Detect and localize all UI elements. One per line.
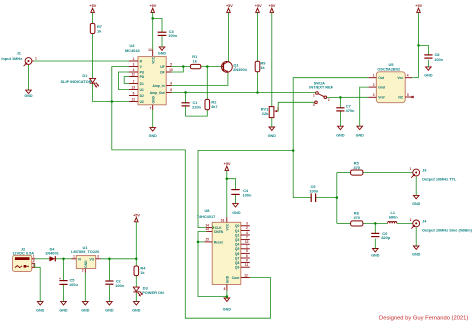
svg-text:GND: GND [84,260,88,268]
wire 4017 CKEN/Reset to ground [198,231,227,296]
svg-text:Cout: Cout [232,276,240,280]
wire C4 to ground [235,195,237,204]
svg-text:5: 5 [407,93,409,97]
capacitor C7 [336,104,355,114]
svg-text:1: 1 [410,218,412,222]
ground (J2) [36,302,45,313]
svg-text:Amp_Out: Amp_Out [150,91,166,95]
svg-text:12VDC 0.5A: 12VDC 0.5A [12,251,34,256]
svg-text:+5V: +5V [415,4,422,8]
wire R5 to J3 [363,172,413,174]
svg-text:22k: 22k [262,111,269,116]
svg-text:Q0: Q0 [235,224,240,228]
svg-text:4: 4 [407,74,409,78]
svg-text:220n: 220n [192,105,201,110]
svg-text:470: 470 [353,165,360,170]
svg-text:GND: GND [424,73,433,77]
node CKEN-Reset junction [197,241,200,244]
svg-text:NC: NC [398,95,403,99]
wire U5 Vcc up [412,77,419,79]
svg-text:Amp_In: Amp_In [153,84,165,88]
svg-text:Out: Out [378,76,385,80]
wire C3 tap [153,18,162,32]
wire C2 top [108,259,110,281]
ground (C4) [232,204,241,215]
power +5V (R7 column) [89,4,96,23]
wire U4 PD to D1 loop [124,77,129,84]
ground (C7) [336,126,345,137]
ground (C6) [371,249,380,258]
svg-text:820p: 820p [381,235,390,240]
wire R2 bottom to C1 bottom [186,106,208,116]
transistor Q1 2N3904 [222,61,248,72]
svg-text:3: 3 [246,222,248,226]
svg-text:7: 7 [246,235,248,239]
svg-text:GND: GND [223,307,232,311]
wire C4 tap [227,179,236,190]
svg-text:DF: DF [160,70,164,74]
wire J1 to U4 pin R [34,60,129,62]
node 4017 gnd junction [226,295,229,298]
svg-text:GND: GND [412,202,421,206]
oscillator U5 OSC5A2B02 [369,62,414,103]
wire C2 to ground [108,285,110,302]
svg-text:CKEN: CKEN [214,230,224,234]
svg-text:4: 4 [246,231,248,235]
svg-text:GND: GND [149,134,158,138]
node R9 junction [256,91,259,94]
power +5V (Q1 collector) [226,4,233,61]
connector J1 [1,50,37,66]
capacitor C1 [182,100,202,110]
power +5V (U5 Vcc) [415,4,422,78]
power +5V (U4 VCC column) [149,4,156,49]
svg-text:470n: 470n [346,108,355,113]
wire R9 bottom [257,72,259,93]
connector J2 12VDC [12,247,35,272]
svg-text:Q1: Q1 [235,229,240,233]
node C1 junction [184,91,187,94]
potentiometer RV1 [261,106,279,117]
wire R7 to LED D1 [92,34,94,79]
ground (U1 regulator) [81,273,90,313]
svg-text:GND: GND [356,133,365,137]
svg-text:1: 1 [73,255,75,259]
node C3 tap junction [151,17,154,20]
node C9 tee junction [336,196,339,199]
svg-text:13: 13 [205,227,209,231]
wire C5 top [63,259,65,280]
wire R1 to Q1 base [201,66,222,68]
svg-text:D1: D1 [140,82,144,86]
svg-text:100n: 100n [115,283,124,288]
svg-text:4k7: 4k7 [211,104,218,109]
svg-text:+5V: +5V [255,4,262,8]
svg-text:MC4044: MC4044 [125,48,141,53]
svg-text:GND: GND [36,309,45,313]
svg-text:GND: GND [232,211,241,215]
svg-text:VI: VI [78,257,81,261]
wire LED D1 to U4 pin U2 [93,83,129,101]
wire R4 top [135,259,137,266]
svg-text:GND: GND [59,309,68,313]
regulator U1 LM7805 [71,245,100,273]
svg-text:Gnd: Gnd [378,86,385,90]
ground (U5 Gnd pin) [356,126,365,137]
svg-text:INT/EXT REF: INT/EXT REF [309,85,333,90]
wire C8 tap [419,45,429,54]
svg-text:Designed by Guy Fernando (2021: Designed by Guy Fernando (2021) [379,316,468,322]
svg-text:Q6: Q6 [235,252,240,256]
diode D4 1N4001 [45,247,59,262]
svg-text:2: 2 [246,226,248,230]
svg-text:8: 8 [170,88,172,92]
svg-text:1: 1 [35,57,37,61]
svg-text:PU: PU [140,70,145,74]
power +5V (RV1 top) [269,4,276,106]
node C6 junction [374,222,377,225]
svg-text:VO: VO [89,257,94,261]
svg-text:4: 4 [133,68,135,72]
svg-text:100n: 100n [242,192,251,197]
svg-text:1: 1 [410,167,412,171]
svg-text:Q3: Q3 [235,238,240,242]
svg-text:2: 2 [373,83,375,87]
ground (74HC4017 pin8) [223,298,232,311]
wire U1 VO rail [101,258,137,260]
wire C7 to ground [339,111,341,126]
svg-text:Q4: Q4 [235,243,240,247]
ground (below J1) [24,65,33,98]
node C5 junction [62,258,65,261]
wire 10MHz branch to 4017 CLK [198,151,293,228]
ground (C2) [105,302,114,313]
svg-text:6: 6 [133,92,135,96]
svg-text:GND: GND [268,134,277,138]
wire junction column C9 [336,173,338,224]
wire R4 to D3 [135,276,137,288]
svg-text:+5V: +5V [149,4,156,8]
resistor R9 [255,61,266,72]
capacitor C6 [371,231,391,240]
svg-text:2: 2 [82,269,84,273]
capacitor C4 [231,188,252,198]
wire U5 Gnd to ground [360,87,369,126]
wire L1 to J4 [397,222,413,224]
op-amp U4 MC4044 phase detector [125,43,173,111]
svg-text:D2: D2 [140,94,144,98]
svg-text:+5V: +5V [224,162,231,166]
connector J3 [410,167,457,181]
svg-text:15: 15 [205,238,209,242]
svg-text:Q9: Q9 [235,266,240,270]
svg-text:GND: GND [81,309,90,313]
node C8 junction [417,44,420,47]
svg-text:100n: 100n [168,33,177,38]
ground (J4) [412,246,421,256]
led D3 POWER ON [133,286,164,297]
svg-text:3: 3 [133,63,135,67]
wire U4 PU to U1 loop [119,72,130,90]
node UF-DF junction [182,65,185,68]
svg-text:PD: PD [140,75,145,79]
node C7 junction [339,96,342,99]
svg-text:U2: U2 [140,100,144,104]
svg-text:100n: 100n [434,57,443,62]
svg-text:Output 10MHz TTL: Output 10MHz TTL [422,177,457,182]
wire C1 top to Amp_Out line [185,92,187,102]
power +5V (74HC4017 VCC) [224,162,231,217]
node R4 junction [135,258,138,261]
resistor R2 [205,99,218,109]
wire C3 to ground [161,36,163,47]
wire switch pin2 to U5 Vref [327,96,369,98]
wire J4 shield to ground [415,227,417,246]
svg-text:U1: U1 [140,88,144,92]
svg-text:2: 2 [277,106,279,110]
wire D3 to ground [135,292,137,302]
node base-R2 junction [206,65,209,68]
svg-text:2: 2 [328,98,330,102]
svg-text:1: 1 [373,74,375,78]
wire U4 Amp_Out line to switch pin1 [172,91,316,93]
svg-text:Q8: Q8 [235,261,240,265]
svg-text:Q2: Q2 [235,233,240,237]
svg-text:1: 1 [246,245,248,249]
wire U5 Out 10MHz down to C9 [293,78,368,198]
svg-text:10: 10 [245,240,249,244]
svg-text:Vref: Vref [378,96,385,100]
svg-text:9: 9 [170,81,172,85]
svg-text:Output 10MHz Sine (0dBm): Output 10MHz Sine (0dBm) [422,227,473,232]
svg-text:GND: GND [336,133,345,137]
svg-text:16: 16 [221,218,225,222]
svg-text:+5V: +5V [269,4,276,8]
svg-text:+5V: +5V [89,4,96,8]
svg-text:5: 5 [170,62,172,66]
power +5V (regulator output) [133,214,140,259]
svg-text:13: 13 [131,86,135,90]
resistor R5 [351,160,363,175]
svg-text:Reset: Reset [214,240,224,244]
svg-text:3: 3 [373,93,375,97]
svg-text:POWER ON: POWER ON [142,290,164,295]
svg-text:Q7: Q7 [235,256,240,260]
svg-text:Vcc: Vcc [397,76,403,80]
svg-text:12: 12 [244,273,248,277]
svg-text:+5V: +5V [133,214,140,218]
svg-text:1: 1 [133,57,135,61]
svg-text:14: 14 [148,48,152,52]
svg-text:9: 9 [246,258,248,262]
svg-text:5: 5 [246,249,248,253]
svg-text:Q5: Q5 [235,247,240,251]
wire J2 to D4 [35,258,50,260]
capacitor C2 [105,278,124,288]
capacitor C5 electrolytic [59,277,78,287]
svg-text:680n: 680n [389,214,398,219]
svg-text:2: 2 [133,80,135,84]
resistor R7 [90,23,102,33]
wire U4 pin V feedback to 4017 Cout [112,67,271,319]
node U2-row junction [111,100,114,103]
svg-text:GND: GND [412,252,421,256]
wire C6 to ground [374,239,376,249]
wire UF-DF tie [172,67,184,73]
svg-text:3: 3 [313,103,315,107]
wire C6 top [374,223,376,233]
ground (U4 pin7) [149,110,158,138]
svg-text:GND: GND [158,52,167,56]
svg-text:U8: U8 [205,208,211,213]
svg-text:GND: GND [226,275,230,283]
svg-text:GND: GND [105,309,114,313]
wire RV1 wiper to switch pin3 [276,102,314,111]
svg-text:6: 6 [246,254,248,258]
wire J2 pins 2-3 to ground [35,263,40,301]
svg-text:+5V: +5V [226,4,233,8]
resistor R8 [351,210,363,226]
ground (D3) [132,302,141,313]
wire U4 Amp_In to Q1 emitter [172,73,228,86]
capacitor C9 [309,184,318,202]
svg-text:100u: 100u [69,282,78,287]
ground (RV1) [268,127,277,138]
led D1 SLIP INDICATOR [61,73,100,88]
svg-text:GND: GND [151,95,155,103]
svg-text:470: 470 [353,215,360,220]
wire C5 to ground [63,285,65,302]
wire RV1 bottom to ground [271,118,273,127]
svg-text:12: 12 [131,98,135,102]
capacitor C8 [424,52,443,62]
svg-text:SLIP INDICATOR: SLIP INDICATOR [61,79,92,84]
svg-text:+: + [59,277,61,281]
connector J4 [410,218,473,232]
wire base node down to R2 [206,67,208,100]
svg-text:GND: GND [24,94,33,98]
svg-text:7: 7 [150,106,152,110]
resistor R4 [134,266,146,276]
node C2 junction [108,258,111,261]
power +5V (R9 top) [255,4,262,61]
svg-text:LM7805_TO220: LM7805_TO220 [71,249,99,254]
inductor L1 [388,210,399,224]
switch SW1A INT/EXT REF [309,81,333,107]
svg-text:74HC4017: 74HC4017 [197,214,216,219]
svg-text:8: 8 [224,287,226,291]
svg-text:100n: 100n [309,189,318,194]
wire U4 UF to R1 [172,66,191,68]
svg-text:Input 1MHz: Input 1MHz [1,56,22,61]
svg-text:VCC: VCC [226,223,230,231]
svg-text:D1: D1 [82,73,88,78]
ground (J3) [412,195,421,205]
svg-text:OSC5A2B02: OSC5A2B02 [377,67,401,72]
wire J3 shield to ground [415,176,417,195]
wire to R5 [337,172,351,174]
svg-text:VCC: VCC [151,56,155,64]
wire to R8 [337,222,351,224]
wire C9 to R5/R8 junction [316,197,337,199]
svg-text:GND: GND [371,254,380,258]
counter U3 74HC4017 [197,208,250,291]
wire 4017 GND pin [226,291,228,299]
resistor R1 [190,54,200,69]
capacitor C3 [158,29,178,38]
svg-text:3: 3 [33,263,35,267]
svg-text:2N3904: 2N3904 [233,67,247,72]
svg-text:3: 3 [97,255,99,259]
svg-text:GND: GND [132,309,141,313]
node 10MHz tee junction [292,149,295,152]
svg-text:1: 1 [313,93,315,97]
ground (C5) [59,302,68,313]
wire reset stub join [198,241,205,243]
node C4 junction [226,177,229,180]
wire R8 to L1 [363,222,388,224]
svg-text:11: 11 [132,73,136,77]
svg-text:1N4001: 1N4001 [45,251,59,256]
svg-text:10: 10 [169,68,173,72]
svg-text:11: 11 [245,263,249,267]
wire C7 top [339,97,341,107]
svg-text:UF: UF [160,65,164,69]
wire C8 to ground [427,60,429,67]
wire D4 to U1 VI [56,258,72,260]
ground (C8) [424,67,433,78]
ground (C3) [158,47,167,56]
